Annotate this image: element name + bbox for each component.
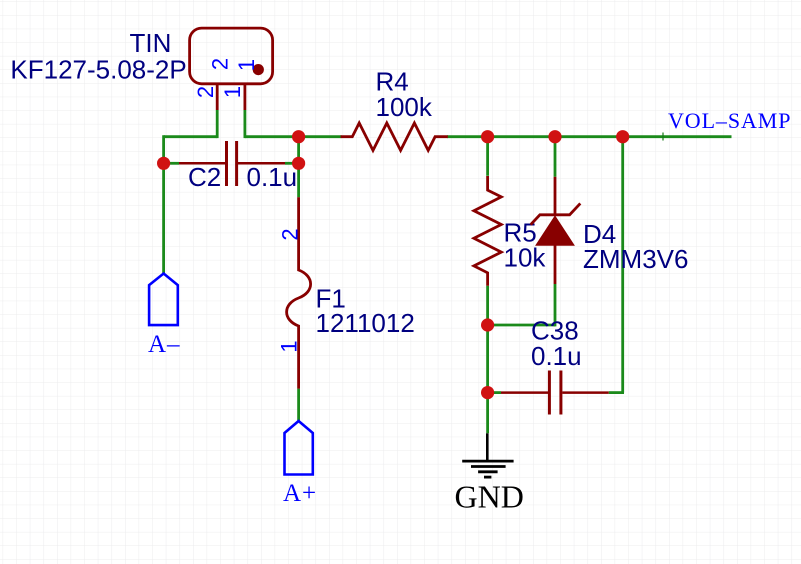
wire: F1 column lower green to A+ (297, 389, 300, 421)
junction dot at F1 top wire (292, 130, 305, 143)
junction dot at right vertical top (616, 130, 629, 143)
ground bar 3 (478, 470, 498, 473)
ground stem (486, 433, 489, 461)
resistor R5 (474, 176, 501, 286)
capacitor C38 left plate (548, 371, 551, 415)
capacitor C38 right lead (562, 391, 608, 394)
wire: top horizontal left segment (164, 135, 218, 138)
wire: R5 column lower green down to GND (486, 286, 489, 434)
resistor R4 (341, 123, 448, 150)
ground bar 1 (462, 460, 513, 463)
zener diode D4 cathode lead (554, 177, 557, 215)
capacitor C2 right plate (235, 141, 238, 186)
wire: C2 left stub (164, 162, 179, 165)
wire: horizontal from pin1 to R4 (245, 135, 342, 138)
svg-text:100k: 100k (376, 92, 433, 122)
wire: horizontal from R4 to VOL-SAMP (447, 135, 732, 138)
connector pin 2 lead (216, 84, 219, 110)
junction dot at C2 right / F1 (292, 157, 305, 170)
wire: C38 right stub (609, 391, 624, 394)
net port A+ flag (285, 421, 313, 475)
svg-text:ZMM3V6: ZMM3V6 (583, 244, 688, 274)
svg-text:0.1u: 0.1u (531, 341, 582, 371)
junction dot at C2 left (157, 157, 170, 170)
connector J TIN body (190, 28, 273, 84)
svg-text:KF127-5.08-2P: KF127-5.08-2P (10, 55, 186, 85)
junction dot at C38 left (481, 386, 494, 399)
wire: R5 column upper green (486, 135, 489, 176)
connector pin 1 green tail (243, 110, 246, 138)
svg-text:1: 1 (277, 340, 302, 352)
wire: F1 column upper green (297, 135, 300, 197)
svg-text:TIN: TIN (130, 28, 172, 58)
net port A- flag (149, 274, 178, 326)
junction dot at R5/D4 bottom (481, 318, 494, 331)
svg-text:2: 2 (278, 228, 303, 240)
capacitor C2 left lead (179, 162, 225, 165)
svg-text:VOL–SAMP: VOL–SAMP (668, 108, 791, 133)
svg-text:C2: C2 (188, 162, 221, 192)
svg-text:10k: 10k (504, 242, 547, 272)
connector pin 1 lead (243, 84, 246, 110)
svg-text:2: 2 (208, 58, 233, 70)
wire: net label anchor tick (662, 133, 664, 141)
wire: D4 column lower green (554, 284, 557, 326)
wire: C38 left stub (488, 391, 501, 394)
wire: D4 column upper green (554, 135, 557, 177)
wire: left vertical to A- (162, 135, 165, 273)
svg-text:1: 1 (234, 59, 259, 71)
connector pin 2 green tail (216, 110, 219, 138)
svg-text:1211012: 1211012 (316, 308, 415, 338)
wire: C2 right stub (285, 162, 299, 165)
capacitor C38 right plate (559, 371, 562, 415)
junction dot at R5 top (481, 130, 494, 143)
svg-text:1: 1 (220, 86, 245, 98)
capacitor C2 right lead (238, 162, 285, 165)
svg-text:A+: A+ (283, 480, 317, 507)
wire: right vertical from top wire to C38 (621, 135, 624, 392)
svg-text:A–: A– (148, 331, 180, 358)
fuse F1 body (287, 197, 311, 388)
wire: horizontal D4 to R5 junction (488, 324, 555, 327)
svg-text:GND: GND (455, 479, 524, 515)
zener diode D4 cathode bar with bent ends (531, 203, 581, 224)
capacitor C38 left lead (501, 391, 548, 394)
ground bar 2 (471, 465, 506, 468)
capacitor C2 left plate (225, 141, 228, 186)
junction dot at D4 top (548, 130, 561, 143)
svg-text:2: 2 (193, 86, 218, 98)
zener diode D4 anode lead (554, 245, 557, 284)
zener diode D4 anode triangle (536, 216, 574, 245)
ground bar 4 (484, 476, 491, 479)
connector pin-1 marker dot (253, 64, 264, 75)
svg-text:0.1u: 0.1u (247, 162, 298, 192)
